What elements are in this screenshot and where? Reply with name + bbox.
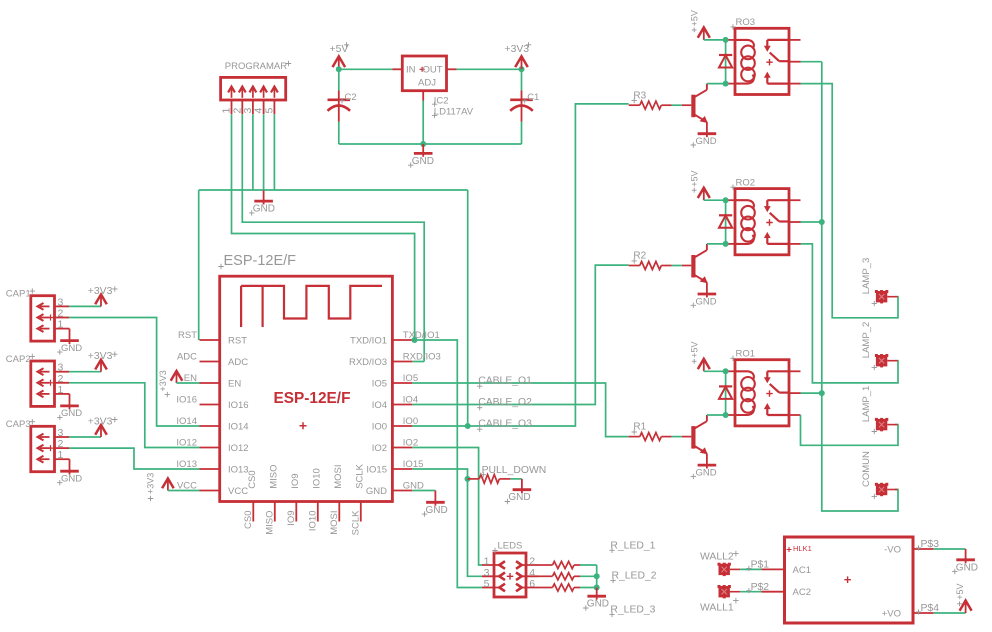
svg-text:4: 4	[529, 567, 535, 579]
resistor PULL_DOWN	[468, 478, 480, 480]
CAP3 pin arrow	[40, 436, 50, 438]
svg-text:+5V: +5V	[955, 584, 965, 600]
svg-text:CAP3: CAP3	[6, 419, 31, 430]
svg-text:GND: GND	[696, 296, 717, 307]
label RO1	[730, 356, 735, 361]
ESP origin cross	[300, 422, 307, 429]
ground Q_RO3	[698, 132, 717, 135]
power +5V top	[338, 58, 340, 69]
PROGRAMAR pin 5 arrow	[273, 88, 275, 98]
CAP2 pin arrow	[40, 371, 50, 373]
node RO1 top	[723, 368, 729, 374]
wire RO3 NO to LAMP_3	[801, 84, 899, 318]
wire RO2 diode net	[725, 200, 727, 244]
LEDS arrow right row3	[516, 584, 522, 592]
ground PULL_DOWN	[521, 479, 523, 493]
svg-text:RST: RST	[178, 330, 197, 341]
ESP left pin RST stub	[200, 339, 220, 341]
RO1 contact top	[767, 370, 789, 372]
RO1 pin stubs right	[789, 370, 801, 372]
ESP right pin IO0 stub	[392, 425, 412, 427]
wire WALL2 to AC1	[740, 568, 761, 570]
svg-text:CS0: CS0	[247, 470, 258, 488]
LEDS pin 3 stub	[482, 575, 500, 577]
CAP2 pin1 to ground	[55, 393, 70, 395]
svg-text:+3V3: +3V3	[158, 370, 168, 391]
svg-text:R1: R1	[633, 422, 646, 433]
wire IO4 CABLE_O2 to R2	[412, 265, 628, 404]
svg-text:IO4: IO4	[372, 400, 387, 411]
svg-text:IO9: IO9	[290, 473, 301, 488]
RO3 contact lever	[770, 53, 780, 62]
RO1 contact arrow up	[766, 408, 768, 416]
svg-text:R2: R2	[633, 251, 646, 262]
CAP3 pin1 to ground	[55, 458, 70, 460]
LEDS pin 1 stub	[482, 564, 500, 566]
RO2 contact arrow up	[766, 236, 768, 244]
svg-text:+3V3: +3V3	[88, 416, 113, 427]
RO3 contact bottom	[767, 82, 789, 84]
svg-text:GND: GND	[696, 467, 717, 478]
CAP2 pin2 stub	[55, 382, 70, 384]
RO2 contact bottom	[767, 243, 789, 245]
svg-text:GND: GND	[61, 343, 82, 354]
capacitor C1 wire lower	[521, 122, 523, 145]
RO1 contact lever	[770, 384, 780, 393]
HLK1 +VO stub	[913, 612, 933, 614]
svg-text:+3V3: +3V3	[88, 286, 113, 297]
svg-text:IO0: IO0	[372, 421, 387, 432]
wire GND rail to IO0	[467, 190, 469, 426]
wire CAP2 pin2 to IO12	[69, 383, 200, 448]
svg-text:C1: C1	[527, 92, 539, 103]
RO2 contact arrow down	[766, 200, 768, 208]
svg-text:ADC: ADC	[177, 352, 197, 363]
wire RO2 collector to coil	[707, 243, 727, 245]
RO2 contact top	[767, 199, 789, 201]
node IO0 junction	[465, 423, 471, 429]
PROGRAMAR pin 4 stub	[263, 100, 265, 114]
svg-text:CABLE_O3: CABLE_O3	[478, 419, 532, 430]
ground ESP	[434, 491, 436, 506]
label HLK1	[787, 547, 792, 552]
RO3 coil pin stubs	[727, 39, 735, 41]
wire RO2 NO to LAMP_2	[801, 244, 899, 383]
wire PROGRAMAR pin2 to RXD/IO3	[242, 114, 424, 361]
LEDS pin 6 stub	[522, 587, 538, 589]
PROGRAMAR pin 3 arrow	[252, 88, 254, 98]
node RO3 bottom	[723, 81, 729, 87]
LEDS arrow right row2	[516, 573, 522, 581]
wire RO1 diode net	[725, 371, 727, 415]
PROGRAMAR pin 3 stub	[252, 100, 254, 114]
svg-text:RXD/IO3: RXD/IO3	[403, 352, 441, 363]
node RO2 common junction	[819, 219, 825, 225]
svg-text:SCLK: SCLK	[351, 510, 362, 535]
label PULL_DOWN	[481, 472, 486, 477]
wire +5V to RO2 coil	[704, 199, 727, 201]
resistor R2	[629, 265, 640, 267]
net label P$2	[746, 588, 751, 593]
svg-text:+5V: +5V	[330, 44, 349, 55]
RO3 contact top	[767, 39, 789, 41]
ESP right pin IO5 stub	[392, 382, 412, 384]
ESP left pin IO16 stub	[200, 404, 220, 406]
capacitor C1 wire upper	[521, 69, 523, 90]
ESP bottom pin MOSI stub	[338, 502, 340, 522]
label R3	[632, 98, 637, 103]
power +3V3 CAP1	[100, 296, 102, 306]
svg-text:CAP1: CAP1	[6, 289, 31, 300]
svg-text:2: 2	[529, 556, 535, 568]
svg-text:CAP2: CAP2	[6, 354, 31, 365]
node TXD junction	[412, 337, 418, 343]
CAP1 pin arrow	[40, 305, 50, 307]
svg-text:MOSI: MOSI	[329, 511, 340, 535]
svg-text:ESP-12E/F: ESP-12E/F	[224, 253, 297, 269]
wire CAP1 pin3 to +3V3	[69, 305, 101, 307]
ESP right pin IO2 stub	[392, 447, 412, 449]
net label CABLE_O3	[477, 427, 482, 432]
node RO1 bottom	[723, 412, 729, 418]
svg-text:5: 5	[484, 578, 490, 590]
ESP antenna meander	[241, 286, 382, 327]
CAP3 pin3 stub	[55, 436, 70, 438]
wire OUT to +3V3	[457, 68, 522, 70]
wire common bus to COMUN	[822, 62, 898, 511]
CAP2 pin arrow	[40, 382, 50, 384]
ground LEDS	[596, 588, 598, 600]
IC2 ADJ stub	[422, 91, 424, 101]
power +5V RO2	[703, 190, 705, 201]
ground Q_RO2	[698, 293, 717, 296]
ground -VO	[965, 549, 967, 563]
resistor R3	[629, 104, 640, 106]
ESP bottom pin MISO stub	[274, 502, 276, 522]
ESP left pin IO14 stub	[200, 425, 220, 427]
wire GND rail horizontal y190	[199, 189, 468, 191]
CAP1 origin cross	[48, 315, 54, 321]
wire GND rail to RST	[198, 190, 200, 340]
svg-text:LAMP_3: LAMP_3	[861, 258, 872, 294]
wire PULL_DOWN to LEDS pin3	[468, 479, 483, 576]
op-amp IC2 IN stub	[392, 68, 402, 70]
svg-text:PULL_DOWN: PULL_DOWN	[482, 465, 547, 476]
CAP1 pin2 stub	[55, 317, 70, 319]
relay RO3 box	[735, 28, 789, 94]
ESP left pin IO12 stub	[200, 447, 220, 449]
ESP right pin GND stub	[392, 490, 412, 492]
svg-text:IO16: IO16	[176, 395, 197, 406]
CAP1 pin arrow	[40, 328, 50, 330]
ESP bottom pin IO9 stub	[295, 502, 297, 522]
svg-text:P$4: P$4	[921, 603, 940, 614]
wire +3V3 to EN	[177, 382, 200, 384]
RO2 coil	[741, 206, 755, 220]
label LEDS	[492, 548, 497, 553]
svg-text:+VO: +VO	[882, 608, 901, 619]
svg-text:GND: GND	[587, 599, 609, 610]
HLK1 origin cross	[844, 576, 851, 583]
IC2 OUT stub	[447, 68, 457, 70]
RO3 contact arrow up	[766, 76, 768, 84]
power +3V3 top	[521, 58, 523, 69]
svg-text:-VO: -VO	[884, 544, 901, 555]
RO1 coil	[741, 377, 755, 391]
relay RO2 box	[735, 189, 789, 255]
svg-text:R_LED_1: R_LED_1	[610, 541, 655, 552]
wire +5V to RO1 coil	[704, 370, 727, 372]
node +5V/C2/IN junction	[336, 66, 342, 72]
transistor Q_RO3 collector	[695, 90, 707, 97]
svg-text:AC1: AC1	[793, 565, 811, 576]
ground CAP1	[60, 339, 79, 342]
svg-text:RO1: RO1	[736, 349, 756, 360]
CAP2 pin arrow	[40, 393, 50, 395]
node RO3 top	[723, 37, 729, 43]
capacitor C2	[328, 99, 351, 102]
transistor Q_RO3 base bar	[691, 95, 695, 118]
svg-text:ADJ: ADJ	[418, 78, 436, 89]
wire +5V to IN	[339, 68, 393, 70]
node RO2 top	[723, 197, 729, 203]
ground under IC2	[422, 144, 424, 157]
svg-text:CS0: CS0	[243, 511, 254, 529]
node ground rail junction	[420, 141, 426, 147]
wire IO0 CABLE_O3 to R3	[412, 104, 628, 426]
svg-text:IO16: IO16	[228, 400, 249, 411]
svg-text:IN: IN	[406, 65, 416, 76]
wire TXD/IO1 branch	[412, 340, 482, 588]
svg-text:R_LED_2: R_LED_2	[612, 571, 657, 582]
label C2	[339, 98, 344, 103]
ESP bottom pin IO10 stub	[317, 502, 319, 522]
ESP left pin ADC stub	[200, 361, 220, 363]
wire RO1 collector to coil	[707, 414, 727, 416]
CAP3 pin2 stub	[55, 447, 70, 449]
svg-text:VCC: VCC	[228, 486, 248, 497]
svg-text:IO10: IO10	[311, 468, 322, 489]
ESP right pin RXD/IO3 stub	[392, 361, 412, 363]
RO3 coil	[741, 46, 755, 60]
svg-text:MISO: MISO	[265, 511, 276, 535]
net label CABLE_O2	[477, 405, 482, 410]
power +3V3 CAP3	[100, 427, 102, 437]
node RO2 bottom	[723, 241, 729, 247]
net label P$1	[746, 566, 751, 571]
label R_LED_3	[609, 612, 614, 617]
wire IO5 CABLE_O1 to R1	[412, 383, 628, 437]
diode D_RO3	[719, 54, 732, 56]
svg-text:LD117AV: LD117AV	[434, 107, 474, 118]
RO2 pin stubs right	[789, 199, 801, 201]
wire IO2 to LEDS pin1	[412, 448, 482, 566]
svg-text:EN: EN	[228, 378, 241, 389]
power +5V bottom	[965, 603, 967, 614]
label C1	[522, 98, 527, 103]
RO2 coil pin stubs	[727, 199, 735, 201]
connector CAP1 box	[31, 296, 55, 341]
PROGRAMAR pin 1 arrow	[231, 88, 233, 98]
RO1 origin cross	[766, 390, 772, 396]
diode D_RO2	[719, 214, 732, 216]
connector CAP3 box	[31, 426, 55, 471]
svg-text:TXD/IO1: TXD/IO1	[350, 335, 387, 346]
svg-text:P$2: P$2	[751, 582, 770, 593]
net label P$3	[916, 545, 921, 550]
wire R_LED common	[596, 565, 598, 588]
ESP left pin EN stub	[200, 382, 220, 384]
label RO2	[730, 185, 735, 190]
wire PROGRAMAR pin5 to GND rail	[273, 114, 275, 190]
svg-text:R3: R3	[633, 90, 646, 101]
wire ground rail under IC2	[339, 143, 522, 145]
capacitor C2 wire upper	[338, 69, 340, 90]
CAP3 origin cross	[48, 445, 54, 451]
svg-text:P$3: P$3	[921, 539, 940, 550]
svg-text:IO10: IO10	[308, 511, 319, 532]
wire RXD/IO3 stub link	[412, 361, 424, 363]
node OUT/C1/+3V3 junction	[519, 66, 525, 72]
svg-text:RO2: RO2	[736, 177, 756, 188]
wire CAP1 pin2 to IO14	[69, 318, 200, 427]
transistor Q_RO2 base bar	[691, 255, 695, 278]
ESP bottom pin CS0 stub	[252, 502, 254, 522]
ESP right pin IO15 stub	[392, 468, 412, 470]
ESP left pin VCC stub	[200, 490, 220, 492]
pad LAMP_1	[876, 419, 887, 430]
svg-text:IO2: IO2	[372, 443, 387, 454]
svg-text:SCLK: SCLK	[354, 463, 365, 488]
wire -VO to ground	[933, 548, 965, 550]
PROGRAMAR pin 5 stub	[273, 100, 275, 114]
PROGRAMAR pin 2 arrow	[241, 88, 243, 98]
RO1 contact bottom	[767, 414, 789, 416]
LEDS arrow left row2	[499, 573, 505, 581]
svg-text:MISO: MISO	[268, 465, 279, 489]
ESP bottom pin SCLK stub	[360, 502, 362, 522]
LEDS arrow right row1	[516, 561, 522, 569]
wire PROGRAMAR pin1 to TXD/IO1	[232, 114, 415, 340]
label R_LED_1	[609, 548, 614, 553]
wire RO3 diode net	[725, 40, 727, 84]
power +3V3 EN	[176, 373, 178, 383]
wire +5V to RO3 coil	[704, 39, 727, 41]
svg-text:AC2: AC2	[793, 587, 811, 598]
relay RO1 box	[735, 360, 789, 426]
svg-text:HLK1: HLK1	[793, 544, 812, 553]
LEDS pin 5 stub	[482, 587, 500, 589]
wire IO15 to PULL_DOWN	[412, 469, 467, 479]
label R1	[632, 429, 637, 434]
ground Q_RO1	[698, 464, 717, 467]
transistor Q_RO1 collector	[695, 421, 707, 428]
module HLK1 box	[785, 537, 914, 623]
ESP right pin TXD/IO1 stub	[392, 339, 412, 341]
wire RO2 common to bus	[801, 221, 822, 223]
RO2 contact lever	[770, 213, 780, 222]
CAP3 pin arrow	[40, 458, 50, 460]
net label CABLE_O1	[477, 384, 482, 389]
svg-text:5: 5	[263, 108, 275, 114]
svg-text:R_LED_3: R_LED_3	[610, 605, 655, 616]
svg-text:GND: GND	[508, 492, 530, 503]
power +5V RO1	[703, 361, 705, 372]
svg-text:MOSI: MOSI	[333, 465, 344, 489]
ground CAP2	[60, 404, 79, 407]
svg-text:C2: C2	[345, 92, 357, 103]
PROGRAMAR pin 2 stub	[241, 100, 243, 114]
label RO3	[730, 24, 735, 29]
RO3 contact arrow down	[766, 40, 768, 48]
module ESP-12E/F box	[220, 276, 393, 501]
capacitor C2 wire lower	[338, 122, 340, 145]
svg-text:IO5: IO5	[372, 378, 387, 389]
svg-text:6: 6	[529, 578, 535, 590]
svg-text:IO13: IO13	[228, 464, 249, 475]
LEDS arrow left row1	[499, 561, 505, 569]
resistor R_LED_1	[538, 564, 553, 566]
wire PROGRAMAR pin3 to GND rail	[252, 114, 254, 190]
CAP2 pin3 stub	[55, 371, 70, 373]
resistor R1	[629, 436, 640, 438]
label R_LED_2	[610, 578, 615, 583]
CAP1 pin1 to ground	[55, 328, 70, 330]
wire ESP GND pin	[412, 490, 435, 492]
svg-text:P$1: P$1	[751, 560, 770, 571]
label IC2	[432, 102, 437, 107]
svg-text:GND: GND	[426, 505, 448, 516]
wire CAP3 pin2 to IO13	[69, 448, 200, 469]
capacitor C1	[510, 99, 533, 102]
RO1 contact arrow down	[766, 371, 768, 379]
PROGRAMAR pin 1 stub	[231, 100, 233, 114]
LEDS arrow left row3	[499, 584, 505, 592]
transistor Q_RO2 emitter	[695, 275, 707, 283]
pad WALL1	[719, 586, 730, 597]
CAP3 pin arrow	[40, 447, 50, 449]
svg-text:WALL1: WALL1	[700, 603, 734, 614]
svg-text:RO3: RO3	[736, 17, 756, 28]
CAP1 pin arrow	[40, 317, 50, 319]
pad LAMP_2	[876, 355, 887, 366]
transistor Q_RO1 base bar	[691, 426, 695, 449]
svg-text:GND: GND	[61, 474, 82, 485]
CAP1 pin3 stub	[55, 305, 70, 307]
power +3V3 CAP2	[100, 362, 102, 372]
wire ADJ down	[422, 101, 424, 145]
svg-text:GND: GND	[61, 408, 82, 419]
label ESP-12E/F title	[218, 264, 223, 269]
wire WALL1 to AC2	[740, 591, 761, 593]
svg-text:CABLE_O1: CABLE_O1	[478, 376, 532, 387]
power +5V RO3	[703, 29, 705, 40]
wire CAP2 pin3 to +3V3	[69, 371, 101, 373]
power +3V3 VCC	[167, 481, 169, 491]
svg-text:+3V3: +3V3	[146, 473, 156, 494]
RO3 origin cross	[766, 59, 772, 65]
ESP right pin IO4 stub	[392, 404, 412, 406]
IC2 origin cross	[420, 67, 425, 72]
diode D_RO1	[719, 385, 732, 387]
svg-text:+5V: +5V	[690, 170, 700, 186]
RO2 origin cross	[766, 219, 772, 225]
transistor Q_RO2 collector	[695, 250, 707, 257]
svg-text:GND: GND	[366, 486, 387, 497]
value LD117AV	[432, 113, 437, 118]
svg-text:GND: GND	[956, 562, 978, 573]
svg-text:LAMP_1: LAMP_1	[861, 386, 872, 422]
